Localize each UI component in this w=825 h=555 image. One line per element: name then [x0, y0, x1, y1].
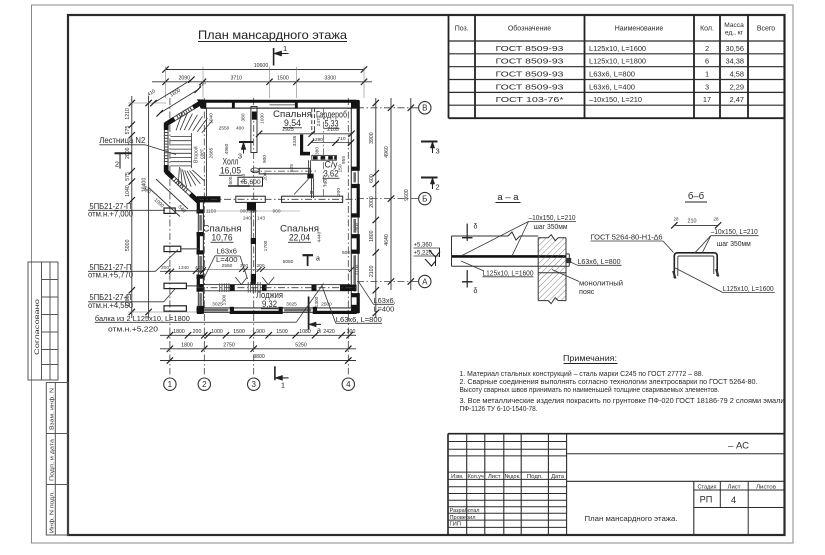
- svg-text:Стадия: Стадия: [698, 484, 717, 490]
- svg-text:А: А: [422, 277, 428, 286]
- svg-text:1030: 1030: [260, 113, 266, 124]
- svg-text:Масса: Масса: [724, 22, 744, 29]
- svg-text:10600: 10600: [254, 63, 269, 69]
- svg-text:2: 2: [115, 160, 119, 169]
- svg-text:3335: 3335: [292, 135, 298, 146]
- svg-text:5050: 5050: [283, 259, 294, 265]
- svg-text:L63x6, L=800: L63x6, L=800: [578, 257, 621, 266]
- svg-text:1040: 1040: [125, 185, 131, 197]
- svg-text:L125x10, L=1600: L125x10, L=1600: [723, 286, 774, 293]
- svg-text:б–б: б–б: [688, 191, 705, 202]
- svg-text:3025: 3025: [286, 301, 297, 307]
- svg-text:Лист: Лист: [488, 474, 501, 480]
- svg-text:210: 210: [688, 219, 697, 225]
- svg-text:955: 955: [341, 156, 347, 164]
- svg-text:1800: 1800: [181, 342, 193, 348]
- svg-text:1800: 1800: [173, 329, 185, 335]
- svg-text:2. Сварные соединения выполнят: 2. Сварные соединения выполнять согласно…: [460, 379, 758, 386]
- svg-text:1700: 1700: [263, 240, 269, 251]
- svg-text:600: 600: [369, 174, 375, 183]
- svg-text:ГОСТ 8509-93: ГОСТ 8509-93: [496, 70, 564, 79]
- svg-text:2100: 2100: [355, 264, 361, 275]
- svg-text:380: 380: [240, 113, 246, 121]
- svg-text:28: 28: [674, 217, 679, 222]
- svg-text:2750: 2750: [223, 342, 235, 348]
- svg-text:400: 400: [195, 265, 203, 271]
- svg-text:9800: 9800: [253, 354, 265, 360]
- svg-text:4960: 4960: [224, 143, 230, 154]
- svg-text:3: 3: [436, 147, 440, 156]
- svg-text:L63x6, L=400: L63x6, L=400: [589, 82, 635, 91]
- svg-text:План мансардного этажа: План мансардного этажа: [198, 28, 347, 42]
- svg-text:Всего: Всего: [757, 26, 775, 33]
- svg-text:300: 300: [347, 329, 356, 335]
- svg-text:Лестница N2: Лестница N2: [99, 136, 145, 145]
- svg-text:17: 17: [703, 95, 711, 104]
- svg-text:1000: 1000: [211, 329, 223, 335]
- svg-text:2105: 2105: [327, 127, 339, 133]
- svg-text:3900: 3900: [369, 132, 375, 144]
- svg-text:710: 710: [337, 136, 345, 142]
- svg-text:1040: 1040: [208, 113, 214, 124]
- svg-text:Изм.: Изм.: [451, 474, 464, 480]
- svg-text:Инф. N подл.: Инф. N подл.: [49, 490, 55, 533]
- svg-text:ед., кг: ед., кг: [725, 30, 744, 37]
- svg-text:4640: 4640: [384, 234, 390, 246]
- svg-text:L63x6, L=800: L63x6, L=800: [336, 315, 382, 324]
- svg-text:900: 900: [262, 155, 268, 163]
- svg-text:L=400: L=400: [374, 304, 395, 313]
- svg-text:28: 28: [714, 217, 719, 222]
- svg-text:2090: 2090: [178, 75, 190, 81]
- svg-text:560: 560: [248, 209, 256, 215]
- svg-text:ГИП: ГИП: [450, 522, 461, 528]
- svg-text:1040: 1040: [241, 173, 247, 184]
- svg-text:Обозначение: Обозначение: [508, 25, 551, 33]
- svg-text:1. Материал стальных конструкц: 1. Материал стальных конструкций – сталь…: [460, 370, 704, 378]
- svg-text:16,05: 16,05: [220, 166, 241, 177]
- svg-text:575: 575: [125, 172, 131, 181]
- svg-text:1500: 1500: [276, 329, 288, 335]
- svg-text:ПФ-1126 ТУ 6-10-1540-78.: ПФ-1126 ТУ 6-10-1540-78.: [460, 406, 538, 413]
- svg-text:4960: 4960: [384, 146, 390, 158]
- svg-text:22,04: 22,04: [289, 233, 310, 244]
- svg-text:шаг 350мм: шаг 350мм: [717, 241, 751, 248]
- svg-text:3. Все металлические изделия п: 3. Все металлические изделия покрасить п…: [460, 398, 785, 405]
- svg-text:200: 200: [193, 329, 202, 335]
- svg-text:200: 200: [336, 188, 342, 196]
- svg-text:В: В: [422, 104, 427, 113]
- svg-text:5000: 5000: [125, 239, 131, 251]
- svg-text:30,56: 30,56: [726, 44, 745, 53]
- svg-text:балка из 2 L125x10, L=1800: балка из 2 L125x10, L=1800: [95, 314, 190, 323]
- svg-text:1: 1: [168, 380, 173, 389]
- svg-text:Подп. и дата: Подп. и дата: [49, 438, 55, 481]
- svg-text:Поз.: Поз.: [455, 26, 469, 33]
- svg-text:δ: δ: [474, 224, 478, 231]
- svg-text:1300: 1300: [222, 294, 228, 305]
- svg-text:200: 200: [161, 265, 169, 271]
- svg-text:свет: свет: [200, 148, 206, 159]
- svg-text:1290: 1290: [312, 137, 323, 143]
- svg-text:4: 4: [346, 380, 351, 389]
- svg-text:–10x150, L=210: –10x150, L=210: [589, 95, 642, 104]
- svg-text:2500: 2500: [321, 301, 332, 307]
- svg-text:1: 1: [283, 44, 287, 53]
- svg-text:δ: δ: [474, 288, 478, 295]
- svg-text:Проверил: Проверил: [450, 515, 476, 521]
- svg-text:525: 525: [289, 164, 295, 172]
- svg-text:600: 600: [342, 250, 350, 256]
- svg-text:ГОСТ 8509-93: ГОСТ 8509-93: [496, 44, 564, 53]
- svg-text:Примечания:: Примечания:: [563, 353, 617, 363]
- svg-text:L63x6, L=800: L63x6, L=800: [589, 70, 635, 79]
- svg-text:1500: 1500: [277, 75, 289, 81]
- svg-text:143: 143: [257, 216, 265, 222]
- svg-text:2,29: 2,29: [730, 82, 744, 91]
- svg-text:Кол.: Кол.: [700, 26, 714, 33]
- svg-text:1: 1: [281, 381, 285, 390]
- svg-text:–10x150, L=210: –10x150, L=210: [711, 229, 758, 236]
- svg-text:1: 1: [705, 70, 709, 79]
- svg-text:150: 150: [338, 164, 344, 172]
- svg-text:Листов: Листов: [756, 484, 776, 490]
- svg-text:Высоту сварных швов принимать: Высоту сварных швов принимать по наимень…: [460, 386, 720, 394]
- svg-text:РП: РП: [700, 494, 713, 504]
- svg-text:1500: 1500: [233, 329, 245, 335]
- svg-text:отм.н.+5,220: отм.н.+5,220: [108, 325, 158, 334]
- svg-text:3,62: 3,62: [324, 169, 339, 179]
- svg-text:2925: 2925: [282, 127, 294, 133]
- svg-text:а: а: [317, 328, 321, 335]
- svg-text:№док.: №док.: [505, 474, 521, 480]
- svg-text:34,38: 34,38: [726, 57, 745, 66]
- svg-text:2,47: 2,47: [730, 95, 744, 104]
- svg-text:L125x10, L=1800: L125x10, L=1800: [589, 57, 646, 66]
- svg-text:1800: 1800: [369, 230, 375, 242]
- svg-text:3: 3: [251, 380, 256, 389]
- svg-text:– АС: – АС: [728, 440, 749, 451]
- svg-text:200: 200: [263, 172, 269, 180]
- svg-text:4: 4: [731, 495, 736, 505]
- svg-text:L125x10, L=1600: L125x10, L=1600: [589, 44, 646, 53]
- svg-text:2: 2: [436, 183, 440, 192]
- svg-text:2420: 2420: [323, 329, 335, 335]
- svg-text:4440: 4440: [317, 231, 323, 242]
- svg-text:3300: 3300: [324, 75, 336, 81]
- svg-text:Согласовано: Согласовано: [34, 298, 41, 355]
- svg-text:5250: 5250: [295, 342, 307, 348]
- svg-text:Наименование: Наименование: [615, 26, 664, 33]
- svg-text:2: 2: [202, 380, 207, 389]
- svg-text:1800: 1800: [355, 222, 361, 233]
- svg-text:3710: 3710: [230, 75, 242, 81]
- svg-text:Разработал: Разработал: [450, 508, 480, 514]
- svg-text:План мансардного этажа.: План мансардного этажа.: [585, 514, 678, 523]
- svg-text:ГОСТ 8509-93: ГОСТ 8509-93: [496, 57, 564, 66]
- svg-text:2: 2: [705, 44, 709, 53]
- svg-text:Дата: Дата: [551, 474, 565, 480]
- svg-text:Лист: Лист: [728, 484, 741, 490]
- svg-text:1150: 1150: [206, 209, 217, 215]
- svg-text:ГОСТ 5264-80-Н1-∆6: ГОСТ 5264-80-Н1-∆6: [591, 233, 663, 242]
- svg-text:ГОСТ 103-76*: ГОСТ 103-76*: [496, 95, 564, 104]
- svg-text:L125x10, L=1600: L125x10, L=1600: [483, 268, 534, 277]
- svg-text:Подп.: Подп.: [527, 474, 543, 480]
- svg-text:9600: 9600: [404, 189, 410, 201]
- svg-text:1300: 1300: [314, 296, 320, 307]
- svg-text:3: 3: [705, 82, 709, 91]
- svg-text:900: 900: [240, 209, 248, 215]
- svg-text:шаг 350мм: шаг 350мм: [534, 222, 568, 231]
- svg-text:700: 700: [323, 179, 329, 187]
- svg-text:9,32: 9,32: [262, 299, 277, 310]
- svg-text:ГОСТ 8509-93: ГОСТ 8509-93: [496, 82, 564, 91]
- svg-text:Второй: Второй: [193, 146, 200, 163]
- svg-text:Взам. инф. N: Взам. инф. N: [49, 388, 55, 430]
- svg-text:–10x150, L=210: –10x150, L=210: [529, 213, 576, 222]
- svg-text:900: 900: [272, 209, 280, 215]
- svg-text:1340: 1340: [178, 265, 189, 271]
- svg-text:240: 240: [243, 216, 251, 222]
- svg-text:1080: 1080: [299, 329, 311, 335]
- svg-text:а – а: а – а: [497, 192, 519, 203]
- svg-text:400: 400: [236, 126, 244, 132]
- svg-text:2550: 2550: [219, 126, 230, 132]
- svg-text:2000: 2000: [369, 196, 375, 208]
- svg-text:380: 380: [315, 147, 321, 155]
- svg-text:1210: 1210: [125, 108, 131, 120]
- svg-text:Кол.уч: Кол.уч: [468, 474, 484, 480]
- svg-text:605: 605: [228, 176, 234, 184]
- svg-text:900: 900: [256, 329, 265, 335]
- svg-text:Б: Б: [422, 194, 427, 203]
- svg-text:2470: 2470: [316, 115, 322, 126]
- svg-text:а: а: [316, 256, 320, 263]
- svg-text:575: 575: [125, 126, 131, 135]
- svg-text:2100: 2100: [369, 265, 375, 277]
- svg-text:2685: 2685: [208, 147, 214, 158]
- svg-text:6: 6: [705, 57, 709, 66]
- svg-text:10,76: 10,76: [212, 233, 233, 244]
- svg-text:пояс: пояс: [579, 287, 595, 296]
- svg-text:4,58: 4,58: [730, 70, 744, 79]
